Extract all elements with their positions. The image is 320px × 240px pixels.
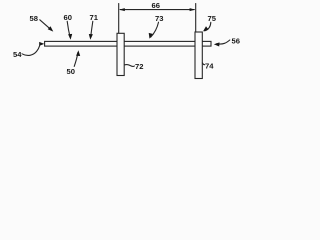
leader 58 xyxy=(40,20,51,30)
flange 72 (left disc) xyxy=(117,33,124,75)
svg-text:58: 58 xyxy=(30,14,38,23)
leader 72 xyxy=(125,64,135,66)
svg-text:66: 66 xyxy=(152,1,160,10)
svg-text:60: 60 xyxy=(64,13,72,22)
arrowhead 60 xyxy=(68,34,72,40)
leader 74 xyxy=(202,63,204,65)
leader 60 xyxy=(67,21,70,37)
dimension line 66 xyxy=(120,9,194,11)
leader 73 xyxy=(151,22,159,37)
flange 74 (right disc) xyxy=(195,32,202,79)
svg-text:71: 71 xyxy=(90,13,99,22)
arrowhead 73 xyxy=(149,33,153,39)
arrowhead 50 xyxy=(76,50,80,56)
leader 71 xyxy=(91,21,93,37)
arrowhead 71 xyxy=(89,34,93,40)
shaft 50 body xyxy=(45,41,211,46)
dimension arrow right xyxy=(190,8,196,11)
leader 56 xyxy=(217,40,230,44)
dimension extension line left xyxy=(118,4,120,33)
svg-text:74: 74 xyxy=(205,61,214,70)
svg-text:72: 72 xyxy=(135,62,143,71)
arrowhead 58 xyxy=(48,26,54,31)
svg-text:75: 75 xyxy=(208,14,217,23)
leader 54 xyxy=(22,46,40,56)
arrowhead 75 xyxy=(203,26,209,31)
svg-text:54: 54 xyxy=(13,50,22,59)
leader 75 xyxy=(205,22,211,31)
arrowhead 56 xyxy=(214,42,220,46)
svg-text:56: 56 xyxy=(232,36,240,45)
arrowhead 54 xyxy=(39,42,44,46)
leader 50 xyxy=(74,53,78,67)
svg-text:50: 50 xyxy=(67,67,75,76)
svg-text:73: 73 xyxy=(155,14,163,23)
dimension arrow left xyxy=(119,8,125,11)
dimension extension line right xyxy=(195,4,197,32)
